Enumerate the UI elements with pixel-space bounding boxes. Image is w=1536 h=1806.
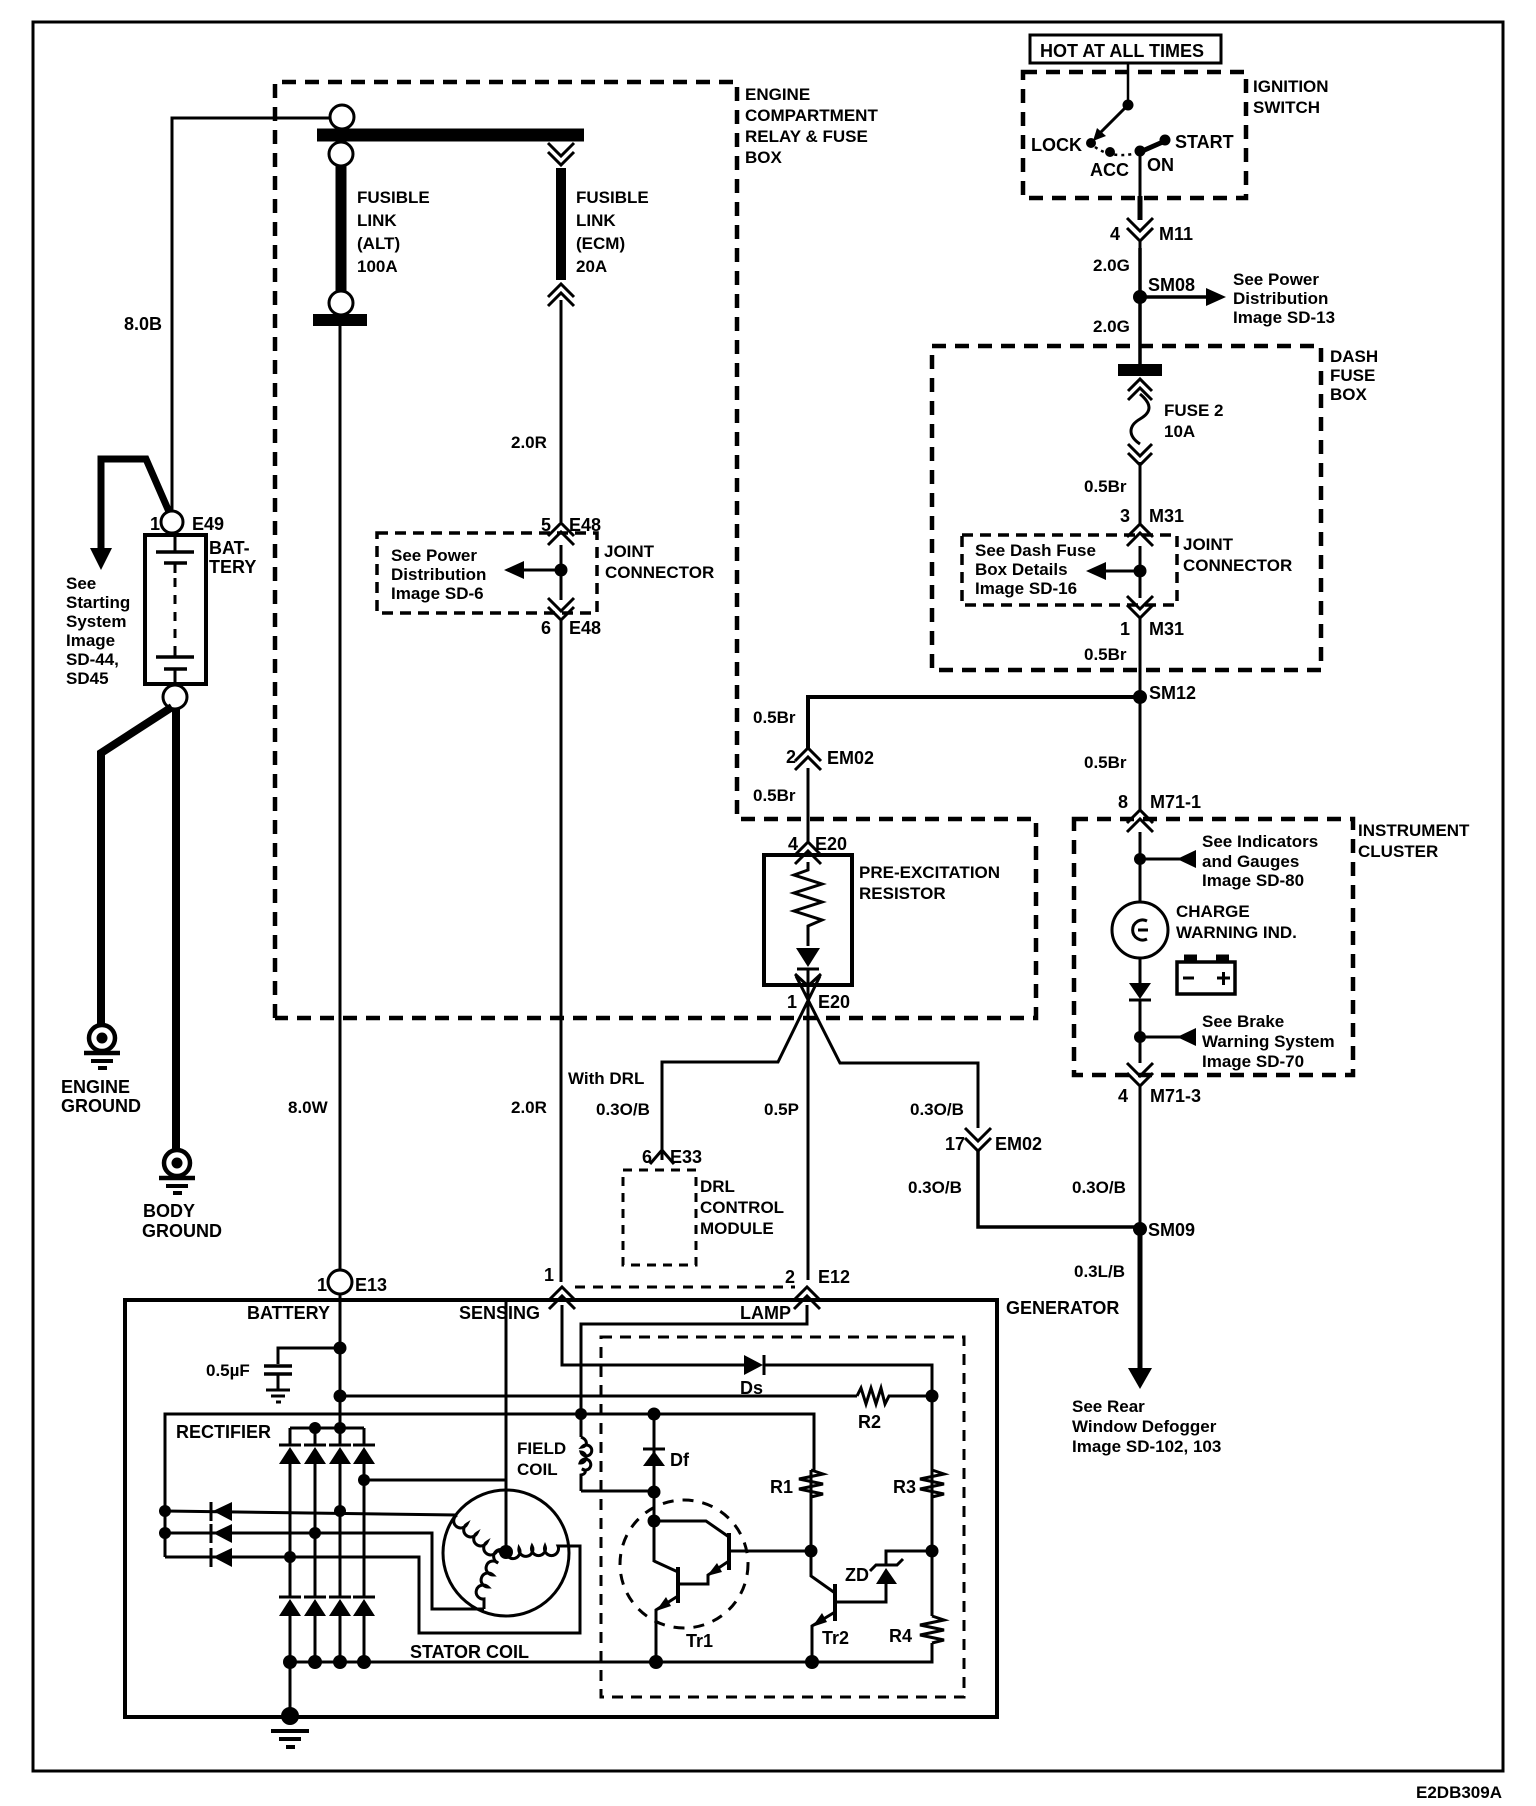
stator center dot bbox=[499, 1545, 513, 1559]
svg-text:SWITCH: SWITCH bbox=[1253, 98, 1320, 117]
connector M31 pin 3 chevrons bbox=[1127, 524, 1153, 537]
svg-text:1: 1 bbox=[1120, 619, 1130, 639]
generator ground drop bbox=[289, 1662, 292, 1716]
phase wire 1 bbox=[165, 1511, 457, 1515]
wire 2.0R from E48-6 down to generator SENSING bbox=[560, 618, 563, 1282]
connector SENSING pin 1 chevrons bbox=[549, 1287, 575, 1300]
generator ground node dot bbox=[281, 1707, 299, 1725]
wire R4 to ground bus bbox=[290, 1643, 932, 1662]
svg-text:1: 1 bbox=[317, 1275, 327, 1295]
connector E48 pin 6 chevrons bbox=[548, 598, 574, 611]
connector M71-3 pin 4 chevrons bbox=[1127, 1063, 1153, 1076]
svg-text:ACC: ACC bbox=[1090, 160, 1129, 180]
junction dot phase 3 bbox=[284, 1551, 296, 1563]
svg-text:DRL: DRL bbox=[700, 1177, 735, 1196]
connector EM02 pin 2 chevrons bbox=[795, 748, 821, 761]
junction dots phase 2 bbox=[159, 1527, 171, 1539]
junction dot to brake warning bbox=[1134, 1031, 1146, 1043]
capacitor 0.5uF branch wire bbox=[278, 1348, 340, 1364]
wire to brake warning system bbox=[1140, 1036, 1180, 1039]
svg-text:CONNECTOR: CONNECTOR bbox=[605, 563, 714, 582]
phase wire 2 with routing bbox=[165, 1533, 484, 1609]
svg-text:E12: E12 bbox=[818, 1267, 850, 1287]
svg-text:Df: Df bbox=[670, 1450, 690, 1470]
svg-text:RECTIFIER: RECTIFIER bbox=[176, 1422, 271, 1442]
junction dot field coil top bbox=[575, 1408, 587, 1420]
svg-text:R4: R4 bbox=[889, 1626, 912, 1646]
connector M71-1 pin 8 chevrons bbox=[1127, 810, 1153, 823]
arrowhead pointing left bbox=[504, 561, 524, 579]
svg-text:0.5µF: 0.5µF bbox=[206, 1361, 250, 1380]
rectifier top diode row bbox=[279, 1445, 375, 1464]
junction dot stator tap bbox=[358, 1474, 370, 1486]
splice node SM09 bbox=[1133, 1222, 1147, 1236]
svg-text:0.5Br: 0.5Br bbox=[753, 708, 796, 727]
arrowhead pointing left bbox=[1086, 562, 1106, 580]
svg-text:2.0R: 2.0R bbox=[511, 433, 547, 452]
wire to power distribution (right arrow) bbox=[1140, 295, 1206, 299]
svg-text:Tr1: Tr1 bbox=[686, 1631, 713, 1651]
fusible link (ECM) 20A element bbox=[556, 168, 566, 280]
junction dot R1-Tr1 base-Tr2 collector bbox=[805, 1545, 818, 1558]
svg-text:Tr2: Tr2 bbox=[822, 1628, 849, 1648]
contact START with heavy link to ON bbox=[1140, 141, 1165, 152]
rectifier column verticals bbox=[289, 1428, 292, 1444]
svg-text:JOINT: JOINT bbox=[1183, 535, 1234, 554]
diode in cluster bbox=[1129, 983, 1151, 999]
wire 0.5Br from fuse to M31 bbox=[1139, 462, 1142, 524]
arrowhead pointing left (indicators) bbox=[1177, 850, 1196, 868]
pre-excitation resistor box bbox=[764, 855, 852, 985]
svg-text:GROUND: GROUND bbox=[61, 1096, 141, 1116]
resistor element (zigzag) bbox=[794, 862, 822, 946]
Tr2 base bar bbox=[833, 1584, 837, 1621]
svg-text:FUSIBLE: FUSIBLE bbox=[357, 188, 430, 207]
junction dot Tr1 emitter on bus bbox=[649, 1655, 663, 1669]
svg-text:LINK: LINK bbox=[357, 211, 397, 230]
battery pictograph bbox=[1177, 962, 1235, 994]
svg-text:COIL: COIL bbox=[517, 1460, 558, 1479]
generator box bbox=[125, 1300, 997, 1717]
diode Ds bbox=[744, 1355, 763, 1375]
svg-text:Box Details: Box Details bbox=[975, 560, 1068, 579]
wire M71-1 to lamp bbox=[1139, 832, 1142, 903]
contact ACC bbox=[1105, 147, 1115, 157]
svg-text:M71-3: M71-3 bbox=[1150, 1086, 1201, 1106]
svg-text:JOINT: JOINT bbox=[604, 542, 655, 561]
rectifier top bus wire bbox=[165, 1414, 814, 1557]
Tr1 first emitter with arrow bbox=[679, 1561, 729, 1584]
wire to starting system (thick bend) bbox=[101, 459, 170, 549]
resistor R1 bbox=[799, 1470, 823, 1497]
wire 8.0B from battery to fusible link bus bbox=[172, 118, 331, 511]
phase wire 3 with routing bbox=[165, 1546, 580, 1633]
svg-text:RELAY & FUSE: RELAY & FUSE bbox=[745, 127, 868, 146]
svg-text:Distribution: Distribution bbox=[1233, 289, 1328, 308]
junction dot R3-ZD node bbox=[926, 1545, 939, 1558]
svg-text:EM02: EM02 bbox=[995, 1134, 1042, 1154]
svg-text:2: 2 bbox=[785, 1267, 795, 1287]
terminal ring below bus bbox=[329, 142, 353, 166]
svg-text:M11: M11 bbox=[1159, 224, 1193, 244]
svg-text:E48: E48 bbox=[569, 618, 601, 638]
wire E20-1 fanout left diagonal to DRL bbox=[662, 976, 820, 1150]
svg-text:WARNING IND.: WARNING IND. bbox=[1176, 923, 1297, 942]
wire inside M31 joint bbox=[1139, 546, 1142, 598]
junction dot to indicators bbox=[1134, 853, 1146, 865]
Tr1 first base bar bbox=[727, 1533, 731, 1570]
contact ON bbox=[1135, 146, 1146, 157]
svg-text:E33: E33 bbox=[670, 1147, 702, 1167]
connector E33 pin 6 fork bbox=[650, 1150, 674, 1164]
wire Df column bbox=[653, 1414, 656, 1562]
svg-text:Warning System: Warning System bbox=[1202, 1032, 1335, 1051]
svg-text:EM02: EM02 bbox=[827, 748, 874, 768]
svg-text:E13: E13 bbox=[355, 1275, 387, 1295]
svg-text:See Indicators: See Indicators bbox=[1202, 832, 1318, 851]
svg-text:See: See bbox=[66, 574, 96, 593]
svg-text:0.5Br: 0.5Br bbox=[1084, 477, 1127, 496]
svg-text:10A: 10A bbox=[1164, 422, 1195, 441]
svg-text:0.3O/B: 0.3O/B bbox=[1072, 1178, 1126, 1197]
bus bar (thick) bbox=[317, 129, 584, 142]
Tr1 second base bar bbox=[676, 1567, 680, 1603]
svg-text:FUSE: FUSE bbox=[1330, 366, 1375, 385]
svg-text:MODULE: MODULE bbox=[700, 1219, 774, 1238]
svg-text:0.3O/B: 0.3O/B bbox=[908, 1178, 962, 1197]
splice node SM12 bbox=[1133, 690, 1147, 704]
joint connector M31 dashed box bbox=[962, 535, 1177, 605]
junction dot capacitor branch bbox=[334, 1342, 347, 1355]
wire SENSING down and right to Ds bbox=[562, 1305, 744, 1365]
svg-text:ENGINE: ENGINE bbox=[745, 85, 810, 104]
wire 0.3O/B from M71-3 to SM09 bbox=[1139, 1086, 1142, 1229]
instrument cluster dashed box bbox=[1074, 819, 1353, 1075]
svg-text:Image SD-102, 103: Image SD-102, 103 bbox=[1072, 1437, 1221, 1456]
transistor Tr2 collector diagonal bbox=[811, 1551, 835, 1593]
svg-text:SD-44,: SD-44, bbox=[66, 650, 119, 669]
stator neutral arm bbox=[505, 1480, 508, 1552]
junction dots phase 1 bbox=[159, 1505, 171, 1517]
svg-text:IGNITION: IGNITION bbox=[1253, 77, 1329, 96]
HOT AT ALL TIMES box bbox=[1030, 35, 1221, 63]
svg-text:3: 3 bbox=[1120, 506, 1130, 526]
svg-text:TERY: TERY bbox=[209, 557, 256, 577]
svg-text:START: START bbox=[1175, 132, 1234, 152]
svg-text:SM09: SM09 bbox=[1148, 1220, 1195, 1240]
svg-text:SM08: SM08 bbox=[1148, 275, 1195, 295]
wire stator neutral to generator top bbox=[364, 1302, 506, 1480]
voltage regulator dashed box bbox=[601, 1337, 964, 1697]
diode element inside resistor box bbox=[796, 948, 820, 967]
svg-text:With DRL: With DRL bbox=[568, 1069, 644, 1088]
dash fuse box (dashed outline) bbox=[932, 346, 1321, 670]
wire Ds to R2 right node bbox=[764, 1365, 932, 1390]
wire 8.0W down from ALT link to generator E13 bbox=[339, 326, 342, 1270]
svg-text:SM12: SM12 bbox=[1149, 683, 1196, 703]
splice node SM08 bbox=[1133, 290, 1147, 304]
connector M11 pin 4 chevrons bbox=[1127, 218, 1153, 231]
svg-text:CONTROL: CONTROL bbox=[700, 1198, 784, 1217]
svg-text:2.0G: 2.0G bbox=[1093, 317, 1130, 336]
svg-text:GENERATOR: GENERATOR bbox=[1006, 1298, 1119, 1318]
wire 0.5P from E20-1 straight down to E12 bbox=[807, 970, 810, 1280]
connector E12 pin 2 chevrons bbox=[794, 1287, 820, 1300]
wire 0.3L/B from SM09 to rear defogger bbox=[1138, 1229, 1143, 1369]
rectifier column bottoms to ground bus bbox=[289, 1616, 292, 1662]
svg-text:See Rear: See Rear bbox=[1072, 1397, 1145, 1416]
svg-text:DASH: DASH bbox=[1330, 347, 1378, 366]
svg-text:Window Defogger: Window Defogger bbox=[1072, 1417, 1217, 1436]
arrowhead pointing left (brake warning) bbox=[1177, 1028, 1196, 1046]
svg-text:Image SD-80: Image SD-80 bbox=[1202, 871, 1304, 890]
joint connector E48 dashed box bbox=[377, 533, 597, 613]
engine compartment relay & fuse box (dashed outline) bbox=[275, 82, 1036, 1018]
svg-text:0.3O/B: 0.3O/B bbox=[596, 1100, 650, 1119]
svg-text:M31: M31 bbox=[1149, 619, 1184, 639]
svg-text:2: 2 bbox=[786, 747, 796, 767]
svg-text:CONNECTOR: CONNECTOR bbox=[1183, 556, 1292, 575]
wire to indicators and gauges bbox=[1140, 858, 1180, 861]
svg-text:See Power: See Power bbox=[1233, 270, 1319, 289]
engine ground symbol bbox=[89, 1025, 115, 1051]
junction dot on M31 joint bbox=[1134, 565, 1147, 578]
wire battery node to R2 bbox=[340, 1395, 857, 1398]
switch common contact bbox=[1123, 100, 1134, 111]
connector EM02 pin 17 chevrons bbox=[965, 1128, 991, 1141]
Tr1 second collector diagonal bbox=[654, 1561, 678, 1572]
svg-text:E20: E20 bbox=[815, 834, 847, 854]
terminal ring top of fusible link bus bbox=[330, 105, 354, 129]
svg-text:GROUND: GROUND bbox=[142, 1221, 222, 1241]
svg-text:LOCK: LOCK bbox=[1031, 135, 1082, 155]
connector E13 pin 1 ring bbox=[328, 1270, 352, 1294]
wire SM12 branch to left bbox=[808, 697, 1140, 748]
diode Df bbox=[643, 1448, 665, 1451]
svg-text:0.5Br: 0.5Br bbox=[1084, 645, 1127, 664]
stator winding arm A (upper left) bbox=[454, 1515, 506, 1555]
wire battery to engine ground (thick) bbox=[101, 707, 172, 1024]
wire from ON contact out of ignition switch bbox=[1139, 152, 1142, 196]
terminal ring bottom of ALT link bbox=[329, 291, 353, 315]
svg-text:(ALT): (ALT) bbox=[357, 234, 400, 253]
rectifier bottom diode row bbox=[279, 1597, 375, 1616]
svg-text:BAT-: BAT- bbox=[209, 538, 250, 558]
arrowhead to rear window defogger bbox=[1128, 1368, 1152, 1389]
switch lever toward LOCK bbox=[1101, 105, 1128, 132]
svg-text:Image SD-13: Image SD-13 bbox=[1233, 308, 1335, 327]
svg-text:INSTRUMENT: INSTRUMENT bbox=[1358, 821, 1470, 840]
junction dot Tr1 collector node bbox=[648, 1515, 661, 1528]
wire to power distribution (left arrow) bbox=[524, 569, 561, 572]
svg-text:20A: 20A bbox=[576, 257, 607, 276]
svg-text:System: System bbox=[66, 612, 126, 631]
battery negative terminal ring bbox=[163, 685, 187, 709]
contact LOCK bbox=[1086, 138, 1096, 148]
stator coil circle bbox=[443, 1490, 569, 1616]
svg-text:Image: Image bbox=[66, 631, 115, 650]
wire R3 column bbox=[931, 1396, 934, 1551]
svg-text:PRE-EXCITATION: PRE-EXCITATION bbox=[859, 863, 1000, 882]
wire within joint connector bbox=[560, 545, 563, 600]
stator winding arm B (right) bbox=[506, 1546, 568, 1559]
fusible link (ALT) 100A element bbox=[336, 166, 347, 291]
svg-text:and Gauges: and Gauges bbox=[1202, 852, 1299, 871]
Tr1 base wire to R1 node bbox=[729, 1550, 811, 1553]
svg-text:17: 17 bbox=[945, 1134, 965, 1154]
connector E20 pin 4 chevrons bbox=[795, 842, 821, 855]
svg-text:STATOR COIL: STATOR COIL bbox=[410, 1642, 529, 1662]
wire 0.5Br from M31 to SM12 bbox=[1139, 618, 1142, 697]
wire diode to brake warning junction bbox=[1139, 1000, 1142, 1063]
wire 0.3O/B from EM02-17 to SM09 bbox=[978, 1149, 1140, 1227]
wire E13 down into generator bbox=[339, 1294, 342, 1430]
wire R4 column bbox=[931, 1551, 934, 1616]
dotted travel arc LOCK-ACC-ON bbox=[1095, 147, 1133, 155]
svg-text:R2: R2 bbox=[858, 1412, 881, 1432]
wire 0.5Br from EM02 to E20 bbox=[807, 768, 810, 842]
wire 2.0R from ECM link down to joint connector E48 bbox=[560, 300, 563, 522]
rectifier column mid verticals bbox=[289, 1464, 292, 1596]
svg-text:0.5Br: 0.5Br bbox=[753, 786, 796, 805]
svg-text:RESISTOR: RESISTOR bbox=[859, 884, 946, 903]
DRL control module dashed box bbox=[623, 1170, 696, 1265]
svg-text:M71-1: M71-1 bbox=[1150, 792, 1201, 812]
Tr1 collector wire bbox=[654, 1521, 729, 1537]
svg-text:6: 6 bbox=[541, 618, 551, 638]
connector E49 pin 1 (ring terminal) bbox=[161, 511, 183, 533]
svg-text:100A: 100A bbox=[357, 257, 398, 276]
junction dot field-Df bbox=[648, 1486, 661, 1499]
svg-text:8.0B: 8.0B bbox=[124, 314, 162, 334]
svg-text:HOT AT ALL TIMES: HOT AT ALL TIMES bbox=[1040, 41, 1204, 61]
wire from hot box into ignition switch bbox=[1127, 63, 1130, 101]
svg-text:LINK: LINK bbox=[576, 211, 616, 230]
svg-text:BATTERY: BATTERY bbox=[247, 1303, 330, 1323]
transistor Tr1 (darlington pair) dashed circle bbox=[620, 1500, 748, 1628]
svg-text:4: 4 bbox=[788, 834, 798, 854]
capacitor ground bbox=[266, 1389, 290, 1392]
svg-text:1: 1 bbox=[787, 992, 797, 1012]
resistor R3 bbox=[920, 1470, 944, 1497]
exciter diode on phase 2 bbox=[210, 1524, 213, 1543]
field coil bbox=[580, 1437, 592, 1491]
junction dot on E48 joint bbox=[555, 564, 568, 577]
terminal bar below ALT link bbox=[313, 314, 367, 326]
svg-text:2.0G: 2.0G bbox=[1093, 256, 1130, 275]
svg-text:FUSE 2: FUSE 2 bbox=[1164, 401, 1224, 420]
svg-text:4: 4 bbox=[1118, 1086, 1128, 1106]
zener diode ZD bbox=[876, 1568, 897, 1584]
exciter diode on phase 1 bbox=[210, 1502, 213, 1521]
svg-text:FIELD: FIELD bbox=[517, 1439, 566, 1458]
wire 2.0G from SM08 into dash fuse box bbox=[1138, 297, 1142, 366]
svg-text:COMPARTMENT: COMPARTMENT bbox=[745, 106, 878, 125]
svg-text:8.0W: 8.0W bbox=[288, 1098, 329, 1117]
connector E20 pin 1 (mating chevron) bbox=[795, 974, 821, 986]
svg-text:ZD: ZD bbox=[845, 1565, 869, 1585]
svg-text:E49: E49 bbox=[192, 514, 224, 534]
wire R1 from top bbox=[810, 1470, 813, 1551]
resistor R2 bbox=[857, 1388, 932, 1404]
wire 0.5Br from SM12 to M71-1 bbox=[1139, 697, 1142, 810]
body ground symbol bbox=[164, 1150, 190, 1176]
junction dots on ground bus bbox=[283, 1655, 297, 1669]
junction dot Tr2 emitter on bus bbox=[805, 1655, 819, 1669]
svg-text:Image SD-6: Image SD-6 bbox=[391, 584, 484, 603]
svg-text:LAMP: LAMP bbox=[740, 1303, 791, 1323]
connector chevrons above ECM link bbox=[548, 143, 574, 156]
svg-text:1: 1 bbox=[150, 514, 160, 534]
svg-text:BOX: BOX bbox=[745, 148, 783, 167]
svg-text:ENGINE: ENGINE bbox=[61, 1077, 130, 1097]
wire 2.0G from M11 to SM08 bbox=[1138, 248, 1142, 297]
Tr1 second emitter with arrow bbox=[656, 1596, 678, 1662]
svg-text:0.3O/B: 0.3O/B bbox=[910, 1100, 964, 1119]
stator winding arm C (lower left) bbox=[476, 1550, 506, 1609]
svg-text:2.0R: 2.0R bbox=[511, 1098, 547, 1117]
ignition switch dashed box bbox=[1023, 72, 1246, 198]
svg-text:E20: E20 bbox=[818, 992, 850, 1012]
svg-text:4: 4 bbox=[1110, 224, 1120, 244]
junction dot R2-R3 node bbox=[926, 1390, 939, 1403]
svg-text:CLUSTER: CLUSTER bbox=[1358, 842, 1438, 861]
fuse terminal bar bbox=[1118, 364, 1162, 376]
wire battery to body ground (thick) bbox=[172, 708, 180, 1149]
svg-text:BODY: BODY bbox=[143, 1201, 195, 1221]
charge warning indicator lamp bbox=[1112, 902, 1168, 958]
wire LAMP down to field node bbox=[581, 1305, 807, 1437]
svg-text:0.3L/B: 0.3L/B bbox=[1074, 1262, 1125, 1281]
arrowhead to starting system bbox=[90, 548, 112, 570]
svg-text:ON: ON bbox=[1147, 155, 1174, 175]
rectifier top bus bbox=[290, 1427, 364, 1430]
svg-text:See Power: See Power bbox=[391, 546, 477, 565]
svg-text:Ds: Ds bbox=[740, 1378, 763, 1398]
exciter diode on phase 3 bbox=[210, 1548, 213, 1567]
resistor R4 bbox=[920, 1616, 944, 1643]
connector M31 pin 1 chevrons bbox=[1127, 596, 1153, 609]
svg-text:1: 1 bbox=[544, 1265, 554, 1285]
svg-text:See Brake: See Brake bbox=[1202, 1012, 1284, 1031]
wire E20-1 fanout right diagonal to EM02-17 bbox=[796, 976, 978, 1128]
svg-text:8: 8 bbox=[1118, 792, 1128, 812]
svg-text:Distribution: Distribution bbox=[391, 565, 486, 584]
wire lamp to diode bbox=[1139, 958, 1142, 983]
wire to dash fuse box details (left arrow) bbox=[1104, 570, 1140, 573]
svg-text:(ECM): (ECM) bbox=[576, 234, 625, 253]
svg-text:Image SD-16: Image SD-16 bbox=[975, 579, 1077, 598]
svg-text:E2DB309A: E2DB309A bbox=[1416, 1783, 1502, 1802]
Tr2 base wire to ZD bbox=[835, 1584, 886, 1602]
Tr2 emitter with arrow bbox=[812, 1612, 835, 1662]
svg-text:M31: M31 bbox=[1149, 506, 1184, 526]
generator ground symbol bbox=[271, 1729, 309, 1733]
svg-text:Image SD-70: Image SD-70 bbox=[1202, 1052, 1304, 1071]
connector E48 pin 5 chevrons bbox=[548, 523, 574, 536]
svg-text:R3: R3 bbox=[893, 1477, 916, 1497]
svg-text:6: 6 bbox=[642, 1147, 652, 1167]
junction dot to R2 line bbox=[334, 1390, 347, 1403]
battery bbox=[145, 535, 206, 684]
fuse 2 10A element (chevrons + S wave) bbox=[1128, 379, 1152, 391]
svg-text:See Dash Fuse: See Dash Fuse bbox=[975, 541, 1096, 560]
svg-text:BOX: BOX bbox=[1330, 385, 1368, 404]
wire field coil to Df column bbox=[581, 1490, 654, 1493]
capacitor 0.5uF bbox=[264, 1364, 292, 1368]
svg-text:CHARGE: CHARGE bbox=[1176, 902, 1250, 921]
svg-text:SENSING: SENSING bbox=[459, 1303, 540, 1323]
